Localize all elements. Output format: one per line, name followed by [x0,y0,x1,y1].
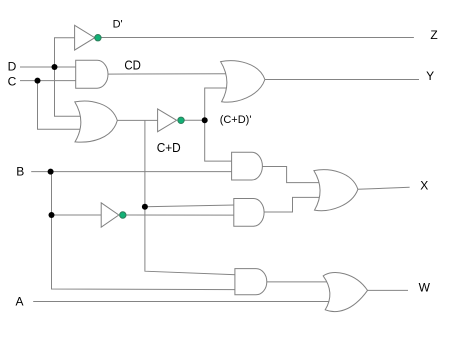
svg-text:D': D' [113,19,123,31]
svg-text:(C+D)': (C+D)' [220,114,252,126]
svg-text:A: A [16,294,24,308]
svg-text:C: C [8,74,17,88]
svg-text:Z: Z [430,28,437,42]
svg-text:Y: Y [426,69,434,83]
svg-text:X: X [420,178,428,192]
svg-text:C+D: C+D [157,140,181,155]
svg-text:D: D [8,60,17,74]
svg-text:B: B [16,165,24,179]
svg-text:W: W [419,280,431,294]
svg-text:CD: CD [124,57,140,72]
